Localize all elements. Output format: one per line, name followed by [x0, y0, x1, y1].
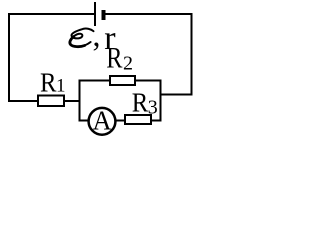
svg-text:A: A [93, 106, 112, 136]
svg-text:R: R [132, 88, 149, 118]
svg-text:r: r [104, 20, 116, 57]
svg-text:R: R [40, 67, 57, 97]
svg-text:1: 1 [56, 76, 66, 97]
svg-text:2: 2 [123, 52, 133, 74]
svg-text:3: 3 [148, 96, 158, 118]
svg-text:,: , [93, 17, 101, 53]
